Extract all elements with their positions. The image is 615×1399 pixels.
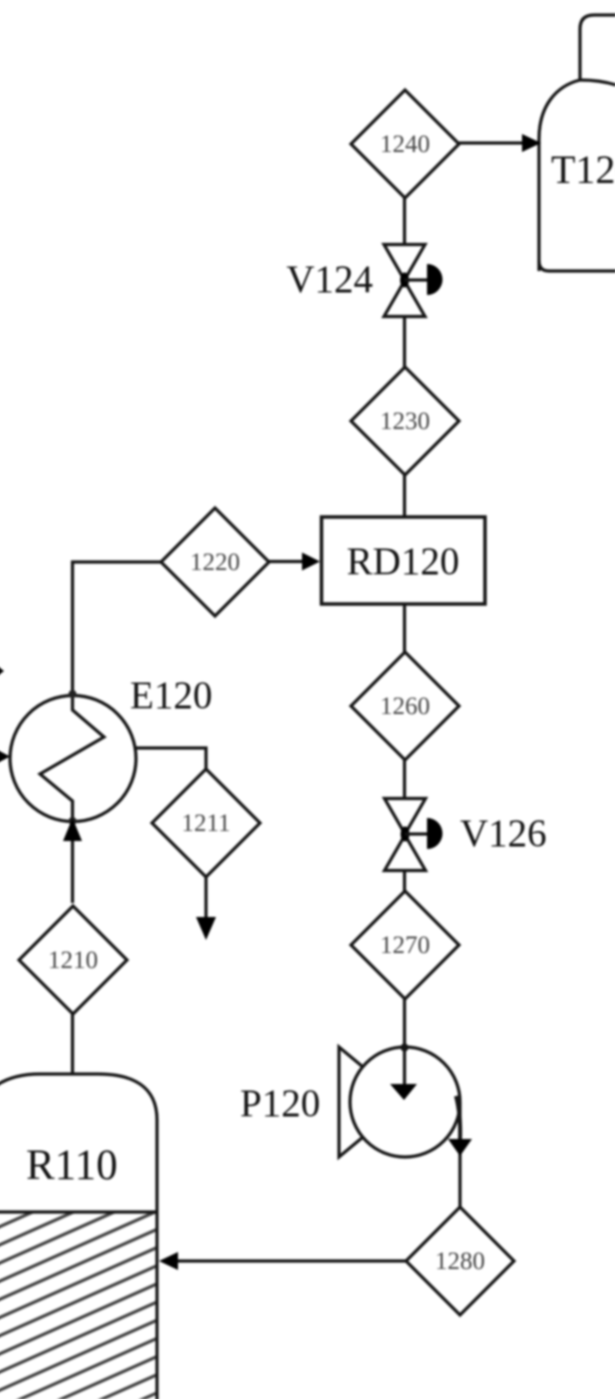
stream diamond 1210 (19, 906, 127, 1014)
valve V126 (385, 799, 426, 871)
wire RD120 to 1260 (403, 604, 406, 653)
stream diamond 1211 (152, 769, 260, 877)
wire 1240 to V124 (403, 198, 406, 246)
wire 1230 to RD120 (403, 475, 406, 517)
svg-text:1220: 1220 (190, 549, 240, 576)
wire 1260 to V126 (403, 760, 406, 800)
arrowhead on P120 outlet (448, 1139, 472, 1156)
svg-text:V124: V124 (286, 258, 373, 301)
svg-text:1211: 1211 (181, 810, 230, 837)
arrowhead into E120 bottom (63, 818, 82, 841)
stream diamond 1280 (406, 1207, 514, 1315)
svg-text:1210: 1210 (48, 947, 98, 974)
arrowhead into E120 left (0, 747, 10, 766)
wire 1210 to R110 (71, 1014, 74, 1074)
svg-text:RD120: RD120 (347, 540, 460, 583)
svg-text:R110: R110 (26, 1142, 118, 1189)
svg-text:1260: 1260 (380, 693, 430, 720)
wire E120 to 1211 (134, 748, 206, 770)
svg-text:T120: T120 (551, 147, 615, 192)
wire E120 to 1220 (73, 562, 162, 697)
wire 1270 into P120 (403, 999, 406, 1086)
svg-text:1270: 1270 (380, 932, 430, 959)
edge fragment arrow (0, 663, 4, 679)
reactor vessel R110 (0, 1074, 157, 1399)
wire 1280 to R110 (172, 1259, 406, 1262)
svg-text:1280: 1280 (435, 1248, 485, 1275)
tank T120 (539, 15, 615, 271)
arrowhead into T120 (522, 134, 541, 152)
svg-text:V126: V126 (460, 812, 547, 855)
E120 coil zigzag (40, 696, 104, 821)
heat exchanger E120 (10, 696, 136, 822)
wire V124 to 1230 (403, 316, 406, 368)
arrowhead into R110 (159, 1252, 178, 1270)
wire 1211 down with arrow (204, 877, 207, 921)
svg-text:1230: 1230 (380, 408, 430, 435)
stream diamond 1260 (351, 652, 459, 760)
svg-text:E120: E120 (130, 674, 212, 717)
wire 1220 to RD120 (269, 560, 307, 563)
wire V126 to 1270 (403, 870, 406, 892)
stream diamond 1230 (351, 367, 459, 475)
wire 1210 up into E120 (71, 837, 74, 903)
reactor RD120 (322, 517, 486, 604)
svg-text:P120: P120 (240, 1082, 320, 1125)
wire P120 to 1280 (456, 1096, 460, 1140)
svg-text:1240: 1240 (380, 131, 430, 158)
pump P120 (339, 1047, 405, 1157)
arrowhead into RD120 (302, 553, 320, 571)
R110 liquid level line (0, 1210, 157, 1213)
stream diamond 1240 (351, 90, 459, 198)
valve V124 (384, 245, 425, 317)
stream diamond 1270 (351, 891, 459, 999)
R110 liquid hatch (0, 1214, 156, 1399)
wire 1240 to T120 (459, 141, 528, 144)
stream diamond 1220 (161, 508, 269, 616)
